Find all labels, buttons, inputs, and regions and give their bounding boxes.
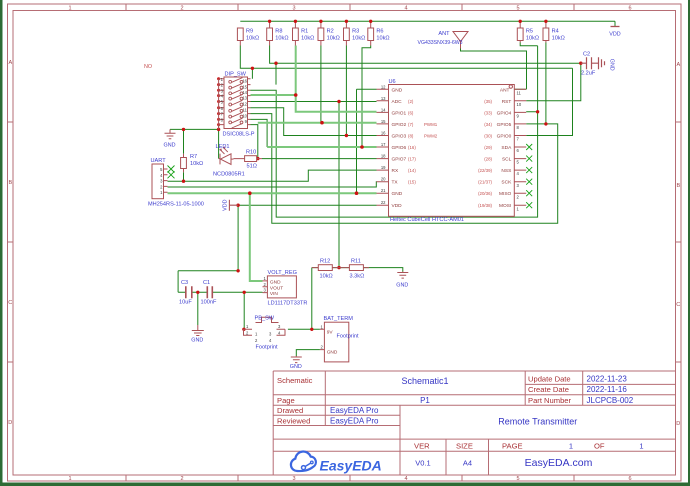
no-connect X IC SCL (526, 156, 532, 162)
wire net GND bus left (170, 125, 219, 182)
connector UART pin stubs (164, 169, 168, 192)
svg-text:VDD: VDD (609, 32, 620, 38)
ground GND at R11 (397, 272, 408, 279)
junction dots VDD net (248, 191, 252, 195)
svg-text:VER: VER (414, 441, 430, 450)
resistor R8 (267, 28, 273, 46)
wire net BAT GND (296, 350, 320, 356)
svg-text:R4: R4 (552, 29, 559, 35)
svg-text:VDD: VDD (222, 199, 228, 210)
junction dots caps row (196, 291, 199, 294)
svg-text:20: 20 (381, 177, 386, 182)
no-connect X UART pin4 (168, 171, 175, 178)
svg-text:GND: GND (392, 191, 403, 197)
svg-text:VOLT_REG: VOLT_REG (268, 270, 297, 276)
svg-text:R11: R11 (351, 259, 361, 265)
svg-text:1: 1 (68, 6, 71, 12)
svg-text:16: 16 (242, 79, 247, 84)
wire net R4/DIP9/GPIO5 wrap (251, 43, 558, 224)
svg-text:U6: U6 (389, 79, 396, 85)
svg-text:C: C (676, 302, 680, 308)
svg-text:2: 2 (180, 6, 183, 12)
junction dot UART pin1 (159, 192, 162, 195)
svg-text:SIZE: SIZE (456, 441, 473, 450)
svg-text:MOSI: MOSI (499, 203, 511, 209)
svg-text:(34): (34) (484, 122, 492, 127)
title block outline (273, 371, 675, 475)
frame row ticks right (676, 122, 682, 362)
wire net R12/R11 row (312, 268, 403, 272)
svg-text:D: D (8, 420, 12, 426)
svg-text:GPIO7: GPIO7 (392, 157, 407, 163)
frame row ticks left (8, 122, 14, 362)
svg-text:R6: R6 (376, 29, 383, 35)
svg-text:(21/37): (21/37) (478, 180, 492, 185)
svg-text:2.2uF: 2.2uF (581, 71, 596, 77)
svg-text:P1: P1 (420, 396, 430, 405)
wire net GPIO6 highlighted (267, 146, 376, 148)
resistor R12 (312, 265, 339, 271)
svg-text:(20/36): (20/36) (478, 191, 492, 196)
wire net caps row / VIN (178, 291, 262, 293)
svg-text:GND: GND (327, 350, 338, 356)
svg-text:51Ω: 51Ω (247, 164, 257, 170)
svg-text:GND: GND (290, 364, 302, 370)
no-connect X marks (168, 144, 533, 208)
dip switch DIP_SW body (219, 77, 251, 129)
svg-text:GND: GND (392, 87, 403, 93)
svg-text:NCD0805R1: NCD0805R1 (213, 172, 245, 178)
svg-text:(17): (17) (408, 157, 416, 162)
svg-text:1: 1 (68, 476, 71, 482)
wire net R1/DIP13/GPIO1 highlighted (251, 46, 377, 112)
svg-text:B: B (8, 180, 12, 186)
ground GND below DIP (165, 129, 176, 138)
resistor R6 (368, 28, 374, 46)
title block values (330, 375, 644, 469)
svg-text:PWM2: PWM2 (424, 134, 438, 139)
svg-text:5: 5 (516, 476, 519, 482)
svg-text:10kΩ: 10kΩ (246, 36, 259, 42)
svg-text:2022-11-16: 2022-11-16 (587, 385, 628, 394)
svg-text:BAT_TERM: BAT_TERM (324, 316, 354, 322)
ground GND below caps (192, 325, 204, 336)
svg-text:R9: R9 (246, 29, 253, 35)
title block vertical dividers (273, 371, 675, 475)
no-connect X IC MOSI (526, 202, 532, 208)
svg-text:13: 13 (381, 96, 386, 101)
svg-text:10kΩ: 10kΩ (552, 36, 565, 42)
IC U6 pin1 indicator circle (509, 85, 512, 88)
svg-text:RX: RX (392, 168, 399, 174)
svg-text:6: 6 (628, 476, 631, 482)
no-connect X IC MISO (526, 190, 532, 196)
resistor R11 (339, 265, 369, 271)
svg-text:Create Date: Create Date (528, 385, 569, 394)
resistor R2 (318, 28, 324, 46)
svg-text:LED1: LED1 (216, 144, 230, 150)
no-connect X IC SCK (526, 179, 532, 185)
WIRES highlighted light green (168, 46, 377, 282)
wire VDD rail drop to VDD symbol (614, 21, 616, 26)
wire net R5 jog (520, 43, 537, 46)
svg-text:(15): (15) (408, 180, 416, 185)
svg-text:C3: C3 (181, 280, 188, 286)
svg-text:C2: C2 (583, 52, 590, 58)
svg-text:3.3kΩ: 3.3kΩ (350, 274, 365, 280)
svg-text:R5: R5 (526, 29, 533, 35)
svg-text:GND: GND (396, 283, 408, 289)
antenna ANT symbol (453, 32, 468, 49)
svg-text:3: 3 (292, 6, 295, 12)
no-connect X IC SDA (526, 144, 532, 150)
svg-text:11: 11 (517, 90, 522, 95)
svg-text:SCL: SCL (502, 157, 512, 163)
capacitor C3 (186, 286, 192, 298)
svg-text:PWM1: PWM1 (424, 122, 438, 127)
svg-text:B: B (676, 183, 680, 189)
svg-text:11: 11 (243, 108, 248, 113)
svg-text:21: 21 (381, 188, 386, 193)
svg-text:R7: R7 (190, 154, 197, 160)
svg-text:R1: R1 (301, 29, 308, 35)
svg-text:RST: RST (502, 99, 512, 105)
svg-text:15: 15 (381, 119, 386, 124)
svg-text:MISO: MISO (499, 191, 512, 197)
capacitor C1 (207, 286, 212, 298)
wire net DIP11/R3/GPIO3 (251, 46, 377, 136)
IC U6 left pin stubs (377, 89, 389, 205)
svg-text:2: 2 (180, 476, 183, 482)
svg-text:GPIO6: GPIO6 (392, 145, 407, 151)
svg-text:PAGE: PAGE (502, 441, 523, 450)
svg-text:1: 1 (639, 441, 643, 450)
svg-text:Part Number: Part Number (528, 396, 572, 405)
svg-text:(22/39): (22/39) (478, 168, 492, 173)
svg-text:GPIO2: GPIO2 (392, 122, 407, 128)
wire net R12 divider vertical (338, 102, 340, 268)
svg-text:Update Date: Update Date (528, 375, 571, 384)
svg-text:OF: OF (594, 441, 605, 450)
TITLEBLOCK (273, 371, 675, 475)
resistor R4 (543, 28, 549, 43)
svg-text:UART: UART (151, 158, 167, 164)
svg-text:GPIO0: GPIO0 (497, 134, 512, 140)
svg-text:Drawed: Drawed (277, 406, 303, 415)
wire net antenna to ANT pin (461, 49, 527, 90)
DIP left pin numbers (221, 77, 224, 123)
svg-text:Schematic1: Schematic1 (401, 376, 448, 386)
WIRES dark green (168, 21, 616, 356)
svg-text:2022-11-23: 2022-11-23 (587, 375, 628, 384)
svg-text:10kΩ: 10kΩ (526, 36, 539, 42)
svg-text:10uF: 10uF (179, 300, 192, 306)
TEXT LABELS blue (148, 29, 621, 371)
led LED1 (219, 146, 234, 164)
svg-text:10: 10 (517, 102, 522, 107)
svg-text:12: 12 (242, 101, 247, 106)
svg-text:ANT: ANT (500, 87, 510, 93)
svg-text:Reviewed: Reviewed (277, 416, 310, 425)
IC U6 body (377, 85, 527, 217)
wire net GPIO7 line (262, 158, 377, 160)
power VDD sideways left (229, 200, 238, 211)
svg-text:10kΩ: 10kΩ (301, 36, 314, 42)
svg-text:10kΩ: 10kΩ (327, 36, 340, 42)
capacitor C2 (581, 57, 599, 69)
resistor R1 (293, 28, 299, 46)
ground GND at BAT_TERM (291, 356, 302, 363)
svg-text:A: A (8, 60, 12, 66)
no-connect X UART pin5 (168, 166, 175, 173)
svg-text:Page: Page (277, 396, 295, 405)
frame column ticks bottom (126, 475, 574, 481)
voltage regulator VOLT_REG body (263, 276, 297, 298)
svg-text:6: 6 (628, 6, 631, 12)
svg-text:Schematic: Schematic (277, 376, 313, 385)
svg-text:R2: R2 (327, 29, 334, 35)
title block labels (277, 375, 605, 451)
connector UART body (152, 164, 168, 199)
svg-text:GPIO5: GPIO5 (497, 122, 512, 128)
svg-text:3: 3 (292, 476, 295, 482)
svg-text:EasyEDA Pro: EasyEDA Pro (330, 406, 379, 415)
resistor R7 (181, 154, 187, 173)
wire net VDD pin22 line (238, 204, 376, 206)
svg-text:GND: GND (270, 279, 281, 285)
EasyEDA logo (291, 452, 382, 474)
svg-text:1: 1 (569, 441, 573, 450)
resistor R10 (234, 156, 263, 162)
svg-text:GND: GND (164, 143, 176, 149)
IC U6 right pin stubs (514, 89, 526, 205)
wire net DIP10/GPIO4 wrap (251, 46, 538, 217)
svg-text:PB_SW: PB_SW (255, 316, 275, 322)
resistor R5 (517, 28, 523, 43)
svg-text:Footprint: Footprint (337, 334, 360, 340)
svg-text:SDA: SDA (501, 145, 512, 151)
svg-text:DIP_SW: DIP_SW (225, 72, 247, 78)
dip switch left tie bus (218, 79, 220, 130)
svg-text:14: 14 (381, 107, 386, 112)
svg-text:19: 19 (381, 165, 386, 170)
svg-text:EasyEDA Pro: EasyEDA Pro (330, 416, 379, 425)
svg-text:A: A (676, 62, 680, 68)
svg-text:V0.1: V0.1 (415, 459, 430, 468)
IC left pin numbers (381, 84, 386, 205)
ground GND sideways at C2 (599, 57, 605, 69)
svg-text:VDD: VDD (392, 203, 403, 209)
DIP right pin numbers (242, 79, 247, 125)
svg-text:16: 16 (381, 131, 386, 136)
svg-text:(2): (2) (408, 99, 414, 104)
wire net VDD uart line highlighted (168, 192, 377, 194)
svg-text:(33): (33) (484, 110, 492, 115)
svg-text:4: 4 (404, 476, 407, 482)
junction dots PB / R12 (242, 328, 245, 331)
UART pin numbers (160, 167, 163, 195)
svg-text:NO: NO (144, 64, 152, 70)
svg-text:(14): (14) (408, 168, 416, 173)
svg-text:R3: R3 (352, 29, 359, 35)
svg-text:(7): (7) (408, 122, 414, 127)
battery terminal BAT_TERM body (320, 322, 349, 362)
svg-text:NSS: NSS (501, 168, 511, 174)
svg-text:D: D (676, 421, 680, 427)
wire net VDD to regulator pin1 highlighted (250, 193, 263, 281)
wire net PB right to BAT PV (288, 268, 320, 330)
junction dots mid bundle (251, 67, 254, 70)
wire net R2 drop (320, 46, 322, 123)
dip switch right pin stubs (248, 79, 251, 125)
svg-text:EasyEDA.com: EasyEDA.com (525, 457, 593, 469)
svg-text:10kΩ: 10kΩ (275, 36, 288, 42)
svg-text:(8): (8) (408, 134, 414, 139)
svg-text:GND: GND (191, 338, 203, 344)
svg-text:Heltec CubeCell HTCC-AM01: Heltec CubeCell HTCC-AM01 (390, 217, 464, 223)
wire net R8/RST/C2 (270, 46, 581, 101)
resistor R3 (344, 28, 350, 46)
svg-text:13: 13 (242, 95, 247, 100)
svg-text:(30): (30) (484, 134, 492, 139)
svg-text:DSIC08LS-P: DSIC08LS-P (223, 132, 255, 138)
svg-text:Remote Transmitter: Remote Transmitter (498, 417, 577, 427)
wire net VDD sym drop to cap loop (178, 205, 238, 292)
svg-text:MH254RS-11-05-1000: MH254RS-11-05-1000 (148, 202, 204, 208)
wire resistor top stubs to rail (270, 21, 546, 28)
svg-text:4: 4 (404, 6, 407, 12)
wire net R10 drop from GPIO2 (251, 119, 268, 158)
svg-text:12: 12 (381, 84, 386, 89)
svg-text:17: 17 (381, 142, 386, 147)
svg-text:10kΩ: 10kΩ (320, 274, 333, 280)
svg-text:A4: A4 (463, 459, 472, 468)
IC pin names dark red (270, 87, 512, 355)
wire net UART3/R7/RX (168, 170, 377, 181)
svg-text:GPIO3: GPIO3 (392, 134, 407, 140)
wire net cap mid to GND (197, 292, 199, 325)
svg-text:R10: R10 (246, 150, 256, 156)
push button PB_SW (244, 317, 286, 335)
svg-text:LD1117DT33TR: LD1117DT33TR (268, 301, 308, 307)
svg-text:(16): (16) (408, 145, 416, 150)
frame row letters (8, 60, 680, 427)
svg-text:R12: R12 (320, 259, 330, 265)
svg-text:(6): (6) (408, 110, 414, 115)
IC secondary pin labels red (144, 64, 493, 208)
svg-text:10: 10 (242, 113, 247, 118)
svg-text:14: 14 (242, 90, 247, 95)
wire net DIP12 to ADC (251, 101, 377, 103)
svg-text:VIN: VIN (270, 291, 279, 297)
svg-text:10kΩ: 10kΩ (352, 36, 365, 42)
svg-text:(19/38): (19/38) (478, 203, 492, 208)
wire net GPIO2 highlighted (258, 122, 377, 124)
svg-text:VG433SNX39-6W3: VG433SNX39-6W3 (418, 40, 463, 46)
svg-text:VOUT: VOUT (270, 285, 283, 291)
svg-text:9V: 9V (327, 329, 334, 335)
svg-text:C: C (8, 300, 12, 306)
svg-text:18: 18 (381, 154, 386, 159)
dip switch switch glyphs (229, 78, 243, 128)
svg-text:JLCPCB-002: JLCPCB-002 (587, 396, 634, 405)
junction dots GND bus / R7 (182, 128, 185, 131)
svg-text:R8: R8 (275, 29, 282, 35)
power VDD top right (611, 26, 620, 28)
svg-text:GPIO4: GPIO4 (497, 110, 512, 116)
svg-text:5: 5 (516, 6, 519, 12)
svg-text:GND: GND (609, 59, 615, 71)
svg-text:Footprint: Footprint (256, 345, 279, 351)
dip switch left pin stubs (219, 79, 224, 125)
pin numbers small dark (160, 77, 522, 350)
wire net C1/VIN to PB pin1 (243, 292, 245, 329)
resistor R9 (237, 28, 243, 46)
svg-text:SCK: SCK (501, 180, 512, 186)
svg-text:TX: TX (392, 180, 399, 186)
svg-text:ADC: ADC (392, 99, 403, 105)
wire net R9/DIP16/GPIO0 (240, 46, 572, 136)
no-connect X IC NSS (526, 167, 532, 173)
junction dots on top rail (268, 20, 271, 23)
battery terminal pin stubs (320, 329, 325, 349)
svg-text:(29): (29) (484, 145, 492, 150)
svg-text:10kΩ: 10kΩ (376, 36, 389, 42)
svg-text:C1: C1 (203, 280, 210, 286)
frame column ticks top (126, 4, 574, 11)
svg-text:15: 15 (242, 84, 247, 89)
wire net R6 jog to GPIO6 (357, 46, 377, 194)
svg-text:22: 22 (381, 200, 386, 205)
svg-text:10kΩ: 10kΩ (190, 161, 203, 167)
wire net UART2/TX (168, 182, 377, 187)
svg-text:EasyEDA: EasyEDA (320, 457, 382, 473)
junction dots DIP left bus (217, 77, 220, 80)
voltage regulator pin stubs (263, 281, 268, 293)
svg-text:GPIO1: GPIO1 (392, 110, 407, 116)
svg-text:ANT: ANT (438, 31, 450, 37)
svg-text:100nF: 100nF (201, 300, 217, 306)
wire VDD top rail (240, 20, 615, 22)
svg-text:(28): (28) (484, 157, 492, 162)
svg-text:(35): (35) (484, 99, 492, 104)
